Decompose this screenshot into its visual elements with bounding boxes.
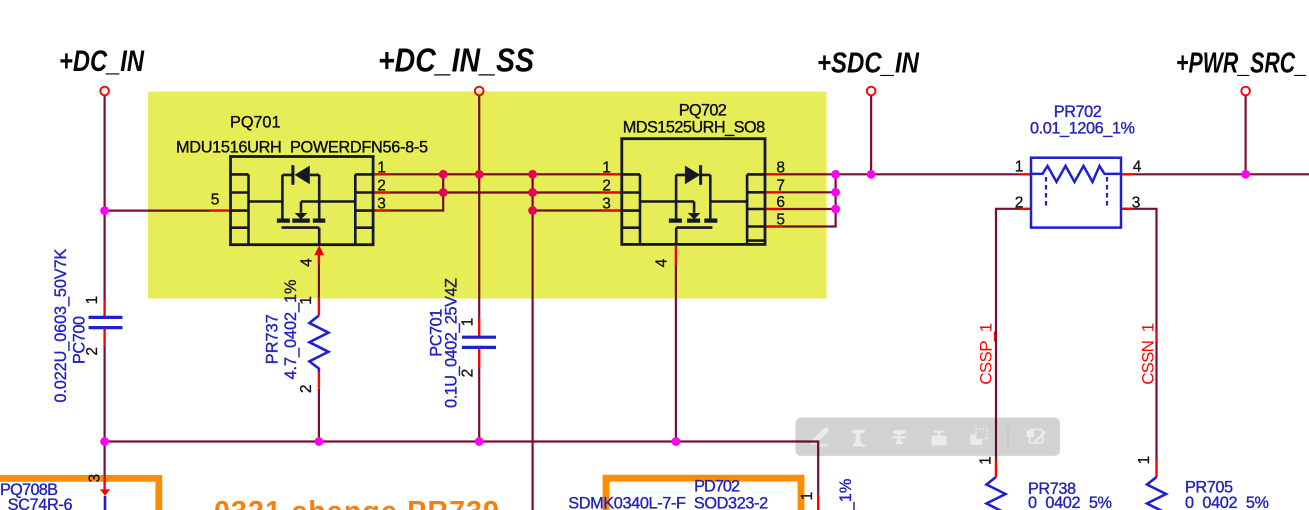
- wire row1: [389, 173, 600, 175]
- red stub PR738 pin1: [995, 459, 997, 477]
- svg-text:0_0402_5%: 0_0402_5%: [1028, 494, 1112, 510]
- node SDC tap: [867, 170, 876, 179]
- PQ701 gate line: [282, 228, 320, 245]
- PQ701 drain line pin5: [249, 200, 283, 203]
- wire +DC_IN vertical: [103, 95, 105, 300]
- red stub PR702 pin1: [1020, 173, 1032, 175]
- wire node SS column: [531, 174, 533, 510]
- PQ701 body arrow: [295, 213, 308, 219]
- PR702 body box: [1031, 158, 1121, 228]
- PQ701 body tie line: [301, 202, 355, 213]
- PQ702 source line pins123: [640, 202, 694, 213]
- node drain8: [831, 170, 840, 179]
- red stub PR702 pin2: [1020, 208, 1032, 210]
- node PC701 bus: [475, 437, 484, 446]
- wire PQ702 gate to bus: [675, 265, 677, 441]
- wire row3 PQ701 side: [389, 174, 443, 210]
- PQ702 body arrow: [688, 213, 701, 219]
- yellow highlight overlay: [148, 92, 827, 299]
- icon lock: [932, 436, 947, 446]
- svg-text:0321 change PR739: 0321 change PR739: [214, 496, 499, 510]
- red stub PC700 pin2: [103, 329, 105, 346]
- wire row2: [389, 191, 600, 193]
- node row3 b: [528, 206, 537, 215]
- red stub PR737 pin1: [318, 298, 320, 316]
- wire PR737 to bus: [318, 389, 320, 442]
- PQ702 source vertical: [675, 175, 678, 220]
- wire PC701 lower to bus: [478, 369, 480, 442]
- svg-text:2: 2: [460, 369, 477, 378]
- red stub PC700 pin1: [103, 300, 105, 316]
- red stub PR702 pin3: [1121, 208, 1133, 210]
- icon text T strike: [892, 430, 906, 444]
- wire row3 PQ702 side: [533, 209, 600, 211]
- PR702 kelvin dashes: [1046, 177, 1107, 208]
- svg-text:+PWR_SRC_: +PWR_SRC_: [1176, 48, 1307, 80]
- PQ702 diode triangle: [685, 166, 700, 185]
- red stub PC701 pin1: [478, 318, 480, 336]
- wire PC700 lower to bus: [103, 346, 105, 442]
- PR702 zigzag: [1031, 166, 1121, 182]
- node bus left: [100, 437, 109, 446]
- node pin5 tap: [100, 206, 109, 215]
- highlight box PQ708B: [0, 478, 159, 510]
- node row1 SS: [475, 170, 484, 179]
- red stub PQ701 pin4: [318, 254, 320, 265]
- capacitor PC700 plates: [89, 317, 123, 327]
- svg-text:+DC_IN_SS: +DC_IN_SS: [378, 43, 534, 80]
- svg-text:PD702: PD702: [694, 478, 740, 496]
- wire PR702 pin4 to +PWR_SRC: [1133, 173, 1309, 175]
- icon select square: [970, 434, 982, 445]
- PQ701 source vertical: [318, 175, 321, 220]
- PQ702 diode links: [676, 174, 710, 177]
- svg-text:1: 1: [84, 296, 101, 305]
- PQ701 drain vertical: [281, 175, 284, 220]
- svg-text:3: 3: [1132, 194, 1141, 211]
- PQ702 left pin cells: [622, 174, 640, 244]
- PQ702 drain vertical: [709, 175, 712, 220]
- node PWR tap: [1241, 170, 1250, 179]
- svg-text:+SDC_IN: +SDC_IN: [817, 48, 920, 80]
- node row1 b: [528, 170, 537, 179]
- red pin stubs PQ701 pins 1-3: [373, 173, 389, 175]
- svg-text:1: 1: [799, 492, 816, 501]
- wire CSSN net: [1121, 209, 1157, 460]
- PQ701 channel plates: [277, 219, 325, 223]
- red pin stubs PQ702 pins 8-5: [765, 173, 782, 175]
- svg-text:SDMK0340L-7-F SOD323-2: SDMK0340L-7-F SOD323-2: [568, 495, 768, 510]
- red stub PR705 pin1: [1155, 460, 1157, 478]
- red arrow PQ701 pin4: [314, 245, 324, 255]
- wire PQ702 drain bus: [782, 173, 1020, 175]
- red stub PD702 pin1: [817, 495, 819, 510]
- port +PWR_SRC: [1241, 87, 1250, 96]
- resistor PR705 zigzag: [1147, 477, 1166, 510]
- svg-text:PR737: PR737: [264, 314, 282, 364]
- svg-text:CSSN_1: CSSN_1: [1139, 323, 1158, 385]
- blue pin line PQ708B: [104, 496, 107, 510]
- svg-text:2: 2: [1015, 194, 1024, 211]
- wire +DC_IN_SS vertical: [478, 95, 480, 318]
- port +DC_IN: [100, 87, 109, 96]
- icon pencil: [812, 430, 827, 445]
- wire gate bus: [105, 442, 819, 495]
- port +DC_IN_SS: [475, 87, 484, 96]
- wire +SDC_IN vertical: [870, 95, 872, 174]
- PQ702 gate line: [676, 228, 712, 245]
- PQ702 diode cathode bar: [699, 165, 702, 185]
- PQ702 drain tie line: [710, 200, 747, 203]
- PQ701 right pin cells: [355, 174, 373, 244]
- capacitor PC701 plates: [462, 337, 496, 347]
- svg-text:PR702: PR702: [1054, 103, 1102, 121]
- node PQ702 gate bus: [672, 437, 681, 446]
- svg-text:0.01_1206_1%: 0.01_1206_1%: [1030, 120, 1135, 138]
- PQ702 channel plates: [669, 219, 717, 223]
- wire PQ701 gate to PR737: [318, 265, 320, 298]
- svg-text:SC74R-6: SC74R-6: [8, 496, 73, 510]
- red stub PC701 pin2: [478, 349, 480, 369]
- svg-text:0.022U_0603_50V7K: 0.022U_0603_50V7K: [52, 248, 70, 402]
- svg-text:+DC_IN: +DC_IN: [59, 45, 145, 78]
- resistor PR737 zigzag: [309, 316, 328, 372]
- PQ702 body box: [622, 139, 765, 245]
- PQ701 diode triangle: [295, 166, 310, 185]
- icon separator: [1007, 429, 1009, 446]
- node row2 b: [528, 188, 537, 197]
- svg-text:3: 3: [86, 474, 103, 483]
- icon tag edit: [1030, 430, 1046, 444]
- svg-text:0_0402_5%: 0_0402_5%: [1185, 494, 1269, 510]
- wire +PWR_SRC vertical: [1244, 95, 1246, 174]
- svg-text:1: 1: [1136, 456, 1153, 465]
- PQ701 left pin cells: [231, 174, 249, 244]
- svg-text:4: 4: [1133, 158, 1142, 175]
- red pin stubs PQ702 pins 1-3: [600, 173, 622, 175]
- PQ701 diode links: [282, 174, 319, 177]
- PQ702 right pin cells: [747, 174, 765, 244]
- svg-text:PC700: PC700: [71, 316, 89, 364]
- svg-text:1: 1: [460, 318, 477, 327]
- red stub PR702 pin4: [1121, 173, 1133, 175]
- red stub PR737 pin2: [318, 372, 320, 389]
- node drain6: [831, 205, 840, 214]
- wire bus to PQ708B: [103, 442, 105, 477]
- node PR737 bus: [315, 437, 324, 446]
- port +SDC_IN: [867, 87, 876, 96]
- icon text T underline: [851, 430, 865, 447]
- highlight box PD702: [606, 478, 801, 510]
- svg-text:1: 1: [978, 456, 995, 465]
- wire pin5 horizontal: [105, 210, 211, 212]
- red arrow PQ708B pin3: [100, 489, 110, 495]
- svg-text:1: 1: [1015, 158, 1024, 175]
- svg-text:CSSP_1: CSSP_1: [977, 323, 996, 385]
- red stub PQ702 pin4: [675, 246, 677, 265]
- svg-text:_1%: _1%: [837, 479, 855, 510]
- node row1 a: [439, 170, 448, 179]
- red pin stub PQ701 pin5: [211, 209, 231, 211]
- red stub PQ708B pin3: [103, 476, 105, 489]
- svg-text:2: 2: [298, 384, 315, 393]
- PQ701 body box: [231, 157, 374, 245]
- PQ701 diode cathode bar: [291, 165, 294, 185]
- node row2 a: [439, 188, 448, 197]
- node drain7: [831, 188, 840, 197]
- resistor PR738 zigzag: [987, 477, 1006, 510]
- wire CSSP net: [996, 209, 1020, 459]
